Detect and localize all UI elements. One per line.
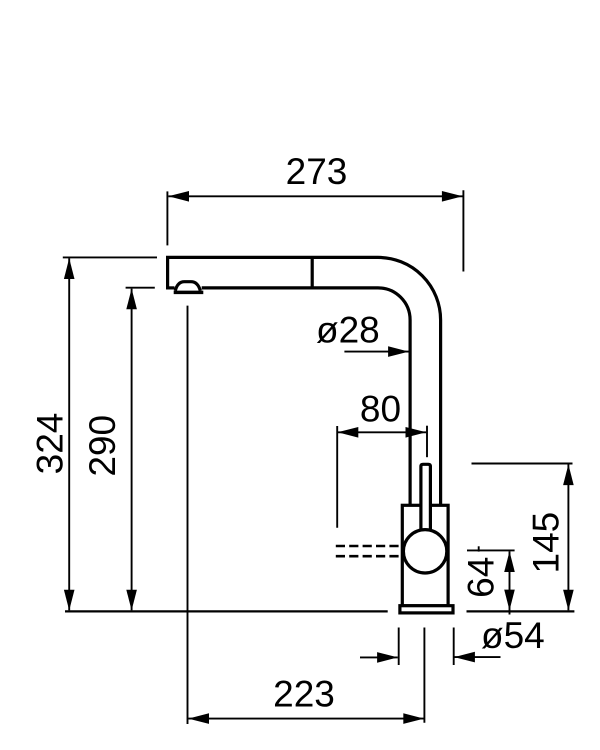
dim 223 arrow right bbox=[403, 713, 424, 724]
svg-text:223: 223 bbox=[273, 674, 335, 715]
centerline base / dim 223 extension right bbox=[423, 628, 425, 723]
dia 54 left arrow bbox=[377, 652, 398, 663]
spout divider joint bbox=[311, 256, 314, 288]
dim 290 arrow down bbox=[126, 590, 137, 611]
dim 64 arrow up bbox=[504, 551, 515, 572]
dia 54 tick left bbox=[398, 628, 400, 666]
dim 290 line bbox=[131, 289, 133, 611]
counter line left segment bbox=[65, 610, 388, 612]
spout bottom edge left stub bbox=[166, 286, 175, 289]
dim 64 extension top bbox=[467, 549, 515, 551]
svg-text:324: 324 bbox=[30, 413, 71, 475]
dim 324 extension top bbox=[63, 256, 157, 258]
dim 80 arrow left bbox=[338, 427, 359, 438]
dim 64 tick bbox=[478, 546, 480, 551]
faucet outer contour (spout top, corner bend, pipe right edge) bbox=[168, 257, 441, 506]
svg-text:290: 290 bbox=[82, 415, 123, 477]
dim 64 line bbox=[509, 551, 511, 614]
dia 28 leader line bbox=[344, 351, 408, 353]
dim 324 arrow up bbox=[64, 258, 75, 279]
dim 290 extension top bbox=[126, 287, 155, 289]
dim 145 extension top bbox=[472, 463, 573, 465]
dim 223 arrow left bbox=[188, 713, 209, 724]
dim 290 arrow up bbox=[126, 289, 137, 310]
dim 145 arrow up bbox=[563, 464, 574, 485]
lever handle bbox=[421, 464, 431, 533]
dia 28 leader arrow bbox=[388, 346, 409, 357]
dim 145 line bbox=[567, 464, 569, 610]
dim 273 line bbox=[168, 195, 462, 197]
dim 80 arrow right bbox=[406, 427, 427, 438]
svg-text:145: 145 bbox=[526, 512, 567, 574]
svg-text:ø54: ø54 bbox=[481, 615, 545, 656]
svg-text:ø28: ø28 bbox=[316, 309, 380, 350]
dim 273 extension right bbox=[462, 190, 464, 271]
base flange bbox=[400, 606, 453, 613]
dim 273 arrow left bbox=[168, 191, 189, 202]
dim 324 line bbox=[68, 258, 70, 610]
dim 273 extension left bbox=[166, 191, 168, 245]
dia 54 left leader bbox=[360, 656, 398, 658]
dim 80 line bbox=[338, 431, 427, 433]
dim 324 arrow down bbox=[64, 590, 75, 611]
svg-text:64: 64 bbox=[460, 557, 501, 598]
svg-text:80: 80 bbox=[360, 389, 401, 430]
dim 80 extension left bbox=[336, 426, 338, 528]
ball joint circle bbox=[403, 530, 446, 573]
aerator dome bbox=[175, 282, 200, 291]
faucet inner contour (spout bottom, inner bend, pipe left edge) bbox=[202, 288, 410, 506]
dia 54 right leader bbox=[454, 656, 500, 658]
dim 64 arrow down bbox=[504, 590, 515, 611]
dim 223 line bbox=[188, 718, 424, 720]
faucet body bbox=[402, 505, 448, 606]
dim 145 arrow down bbox=[563, 590, 574, 611]
centerline spout outlet / dim 223 extension left bbox=[187, 306, 189, 724]
dim 80 extension right bbox=[426, 426, 428, 458]
svg-text:273: 273 bbox=[286, 151, 348, 192]
aerator base bar bbox=[174, 291, 204, 295]
dim 273 arrow right bbox=[442, 191, 463, 202]
dia 54 tick right bbox=[453, 628, 455, 666]
pull-out hose dashed lines bbox=[336, 546, 401, 556]
dia 54 right arrow bbox=[454, 652, 475, 663]
counter line right segment bbox=[467, 610, 575, 612]
